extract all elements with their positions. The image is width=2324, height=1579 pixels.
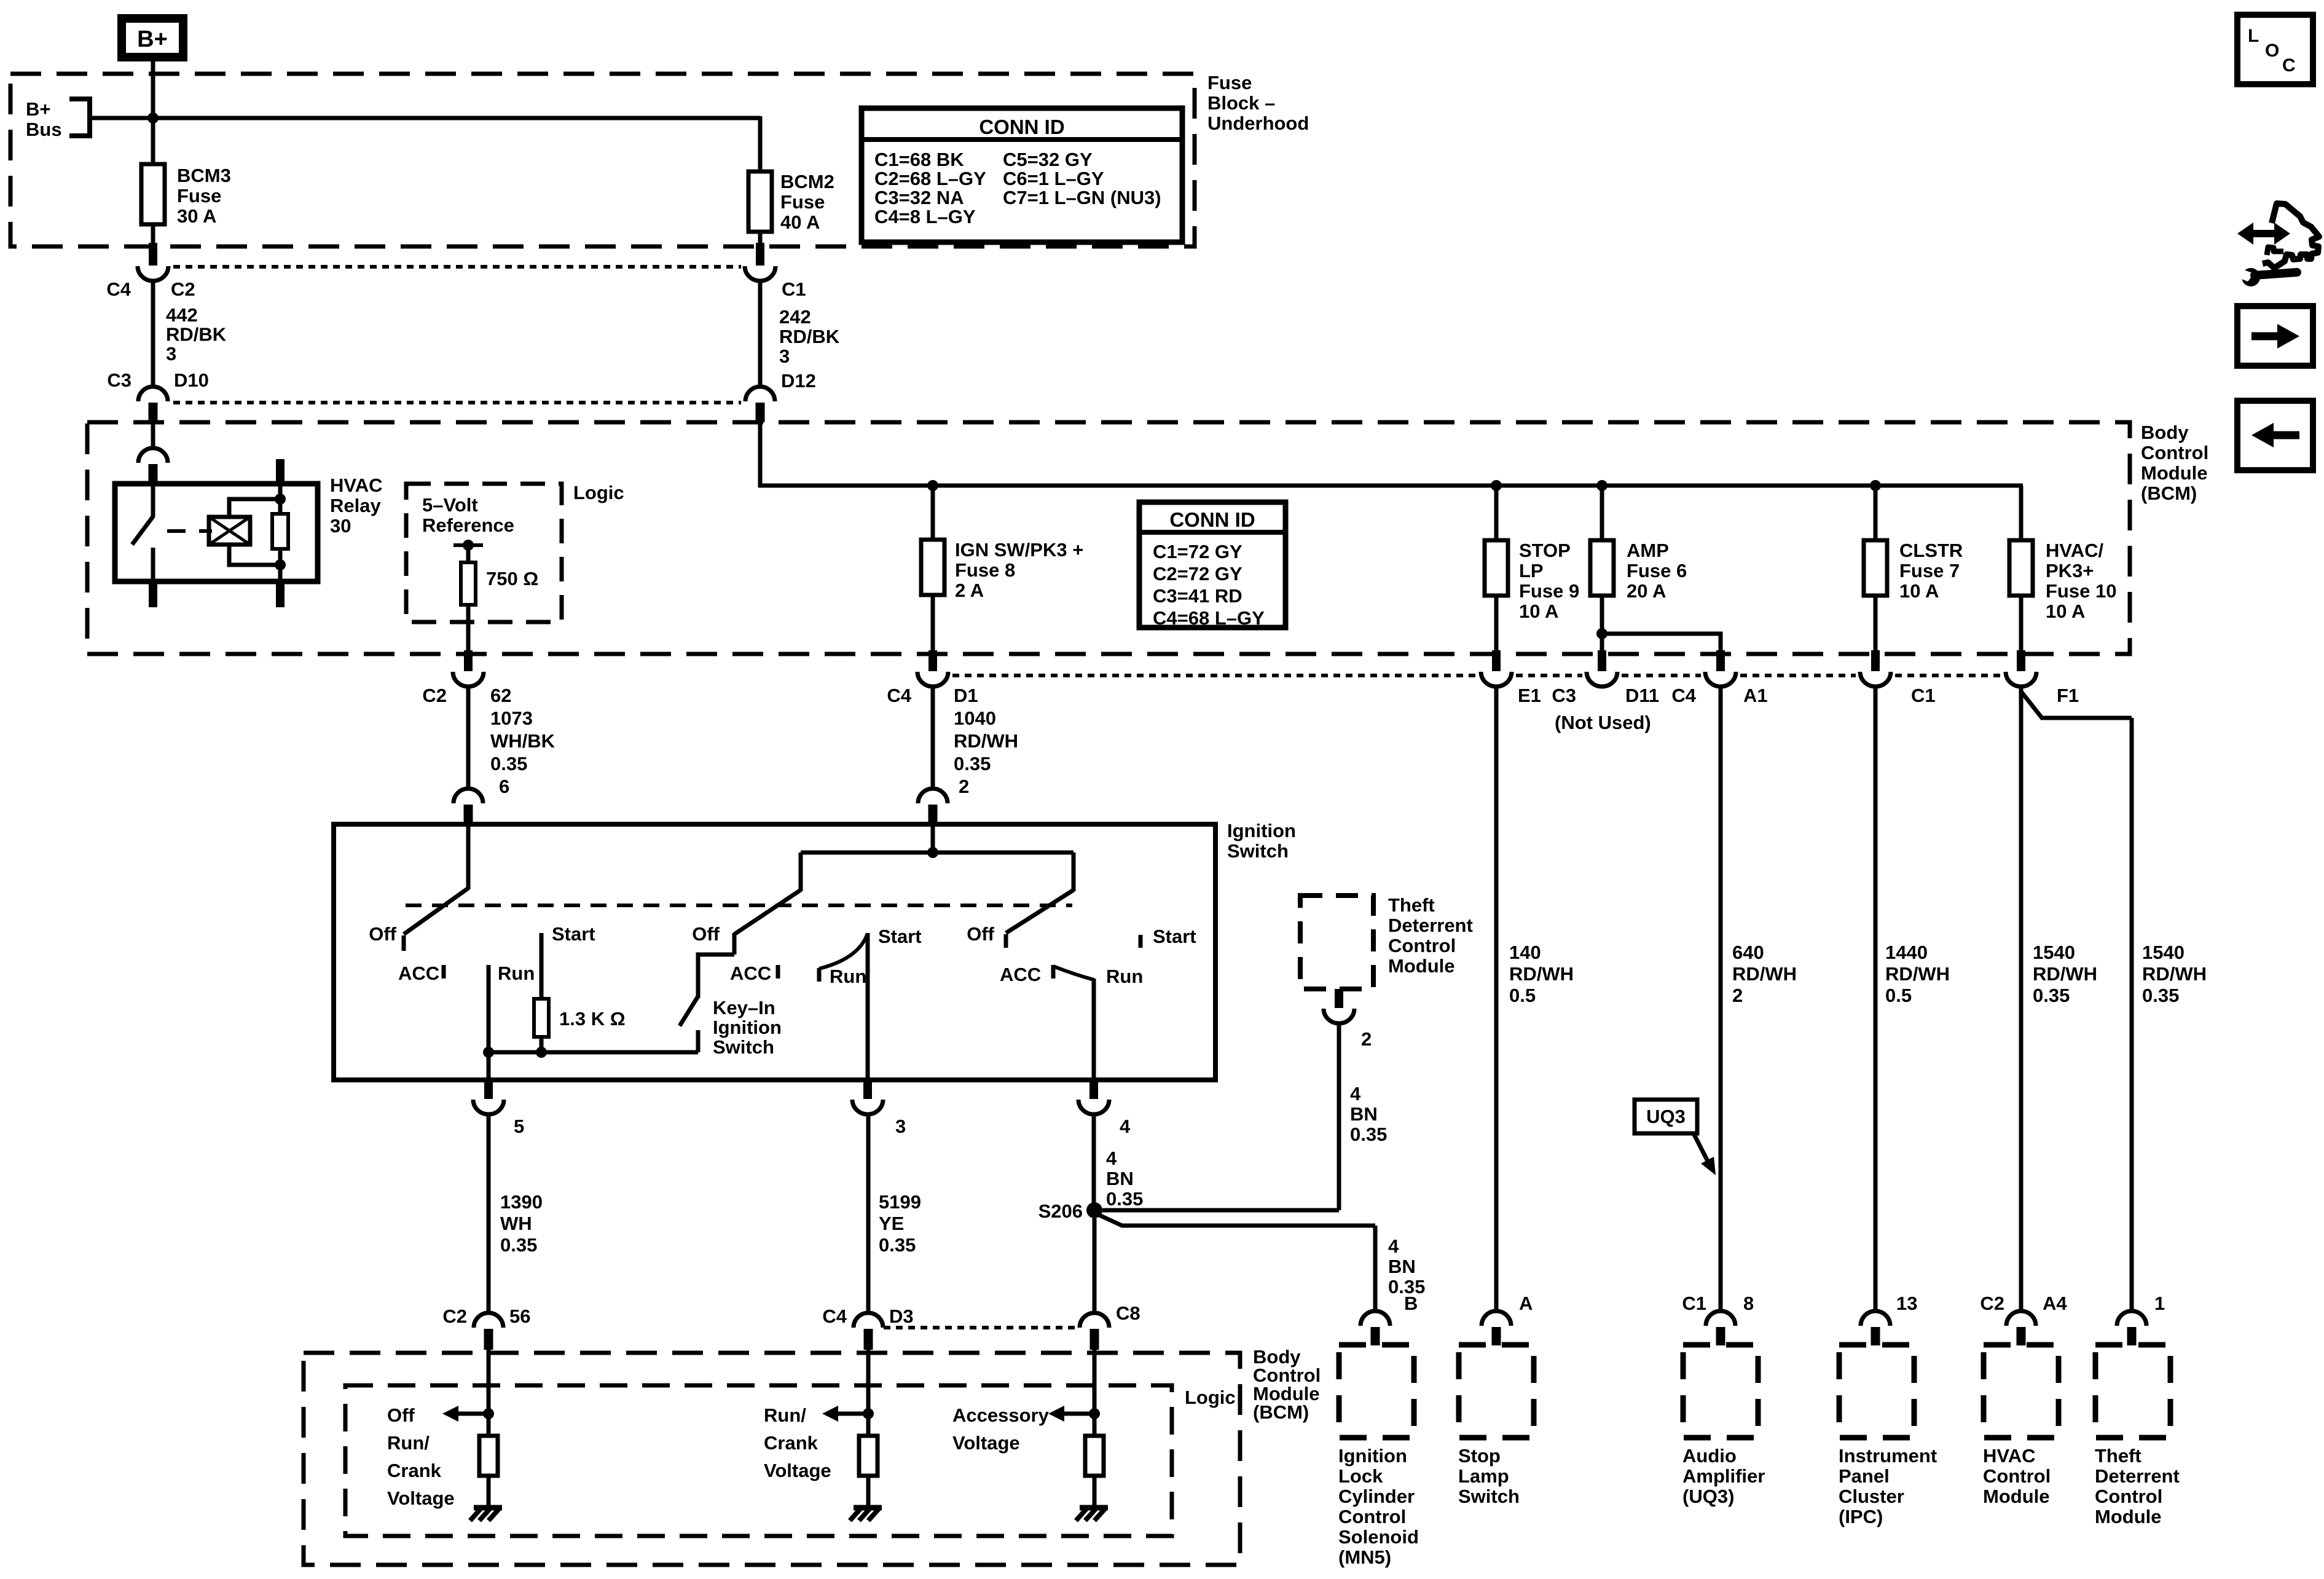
svg-text:Voltage: Voltage xyxy=(387,1487,455,1509)
svg-text:1390: 1390 xyxy=(500,1191,543,1213)
svg-text:Fuse 6: Fuse 6 xyxy=(1627,560,1687,581)
svg-text:5199: 5199 xyxy=(879,1191,921,1213)
svg-text:1.3 K Ω: 1.3 K Ω xyxy=(559,1008,626,1030)
svg-text:2: 2 xyxy=(1361,1028,1372,1050)
svg-text:Run: Run xyxy=(1106,966,1143,987)
svg-text:D10: D10 xyxy=(174,369,209,391)
svg-text:Underhood: Underhood xyxy=(1207,112,1309,134)
svg-text:Module: Module xyxy=(2141,462,2208,484)
svg-text:C: C xyxy=(2282,55,2296,76)
svg-text:Cluster: Cluster xyxy=(1839,1486,1904,1507)
svg-text:Control: Control xyxy=(2095,1486,2162,1507)
svg-text:Fuse 8: Fuse 8 xyxy=(955,559,1015,581)
svg-text:C6=1 L–GY: C6=1 L–GY xyxy=(1003,168,1104,189)
svg-text:3: 3 xyxy=(779,345,790,367)
svg-text:C3: C3 xyxy=(107,369,132,391)
svg-text:A: A xyxy=(1519,1293,1533,1314)
svg-text:Accessory: Accessory xyxy=(952,1404,1050,1426)
svg-text:Instrument: Instrument xyxy=(1839,1445,1937,1467)
svg-text:Run/: Run/ xyxy=(387,1432,430,1454)
svg-text:Voltage: Voltage xyxy=(764,1460,831,1481)
svg-text:O: O xyxy=(2265,41,2279,61)
svg-text:Off: Off xyxy=(967,923,994,945)
svg-text:RD/BK: RD/BK xyxy=(166,324,227,345)
svg-text:C1: C1 xyxy=(1682,1293,1706,1314)
svg-text:C8: C8 xyxy=(1116,1302,1140,1324)
svg-text:C4: C4 xyxy=(106,278,131,300)
svg-text:C3=41 RD: C3=41 RD xyxy=(1153,585,1242,607)
svg-text:S206: S206 xyxy=(1038,1200,1083,1222)
svg-text:Theft: Theft xyxy=(1388,894,1435,916)
svg-text:Lock: Lock xyxy=(1338,1465,1383,1487)
svg-text:0.35: 0.35 xyxy=(2142,985,2179,1006)
svg-text:Logic: Logic xyxy=(1185,1387,1236,1408)
svg-text:2: 2 xyxy=(1732,985,1743,1006)
svg-text:640: 640 xyxy=(1732,942,1764,963)
svg-text:Stop: Stop xyxy=(1458,1445,1501,1467)
svg-text:ACC: ACC xyxy=(398,963,439,984)
svg-text:Fuse: Fuse xyxy=(177,185,221,207)
svg-text:CLSTR: CLSTR xyxy=(1899,540,1963,561)
svg-text:D11: D11 xyxy=(1625,685,1659,706)
svg-text:Control: Control xyxy=(1338,1506,1406,1527)
svg-text:Off: Off xyxy=(369,923,396,945)
svg-text:RD/WH: RD/WH xyxy=(2142,963,2207,985)
svg-text:Run: Run xyxy=(830,966,866,987)
svg-text:1440: 1440 xyxy=(1885,942,1928,963)
svg-text:B: B xyxy=(1404,1293,1418,1314)
svg-text:8: 8 xyxy=(1743,1293,1754,1314)
svg-text:CONN ID: CONN ID xyxy=(979,116,1064,138)
svg-text:5: 5 xyxy=(514,1116,524,1137)
svg-text:Ignition: Ignition xyxy=(1338,1445,1407,1467)
svg-text:Ignition: Ignition xyxy=(713,1017,782,1038)
svg-text:140: 140 xyxy=(1509,942,1541,963)
svg-text:ACC: ACC xyxy=(730,963,771,984)
svg-text:C2: C2 xyxy=(1980,1293,2004,1314)
svg-text:Panel: Panel xyxy=(1839,1465,1890,1487)
svg-text:Module: Module xyxy=(2095,1506,2162,1527)
svg-text:HVAC/: HVAC/ xyxy=(2046,540,2104,561)
svg-text:Relay: Relay xyxy=(330,495,381,516)
svg-text:RD/WH: RD/WH xyxy=(1885,963,1950,985)
svg-text:0.35: 0.35 xyxy=(954,753,991,774)
svg-text:Logic: Logic xyxy=(573,482,624,503)
svg-text:Control: Control xyxy=(2141,442,2208,463)
svg-text:30: 30 xyxy=(330,515,351,537)
svg-text:Fuse 9: Fuse 9 xyxy=(1519,580,1579,602)
svg-text:Voltage: Voltage xyxy=(952,1432,1020,1454)
svg-text:Run/: Run/ xyxy=(764,1404,806,1426)
svg-text:1540: 1540 xyxy=(2142,942,2185,963)
svg-text:AMP: AMP xyxy=(1627,540,1669,561)
svg-text:C2: C2 xyxy=(171,278,195,300)
svg-text:CONN ID: CONN ID xyxy=(1169,508,1255,531)
svg-text:1: 1 xyxy=(2154,1293,2165,1314)
svg-text:Module: Module xyxy=(1983,1486,2050,1507)
svg-text:BCM2: BCM2 xyxy=(780,171,834,192)
svg-text:Switch: Switch xyxy=(1458,1486,1520,1507)
svg-text:C1=68 BK: C1=68 BK xyxy=(874,149,964,170)
svg-text:0.35: 0.35 xyxy=(500,1234,537,1256)
svg-text:0.35: 0.35 xyxy=(879,1234,916,1256)
svg-text:3: 3 xyxy=(895,1116,906,1137)
svg-text:4: 4 xyxy=(1388,1235,1399,1257)
svg-text:1540: 1540 xyxy=(2033,942,2075,963)
svg-text:1073: 1073 xyxy=(490,707,533,729)
svg-text:ACC: ACC xyxy=(1000,964,1041,985)
svg-text:C3: C3 xyxy=(1552,685,1576,706)
svg-text:Fuse: Fuse xyxy=(780,191,825,213)
svg-text:4: 4 xyxy=(1120,1116,1131,1137)
svg-text:2: 2 xyxy=(959,776,969,797)
svg-text:RD/WH: RD/WH xyxy=(1509,963,1574,985)
svg-text:Amplifier: Amplifier xyxy=(1682,1465,1765,1487)
svg-text:Cylinder: Cylinder xyxy=(1338,1486,1415,1507)
svg-text:(BCM): (BCM) xyxy=(2141,482,2197,504)
svg-text:Control: Control xyxy=(1388,935,1456,956)
svg-text:A1: A1 xyxy=(1743,685,1768,706)
svg-text:6: 6 xyxy=(499,776,509,797)
svg-text:D12: D12 xyxy=(781,370,816,392)
svg-text:Reference: Reference xyxy=(422,514,514,536)
svg-text:0.35: 0.35 xyxy=(1350,1124,1387,1145)
svg-text:10 A: 10 A xyxy=(2046,600,2085,622)
svg-text:D3: D3 xyxy=(889,1305,914,1327)
svg-text:4: 4 xyxy=(1106,1148,1117,1169)
svg-text:Crank: Crank xyxy=(764,1432,819,1454)
svg-text:HVAC: HVAC xyxy=(330,474,383,496)
svg-text:PK3+: PK3+ xyxy=(2046,560,2094,581)
svg-text:(IPC): (IPC) xyxy=(1839,1506,1883,1527)
svg-text:(BCM): (BCM) xyxy=(1253,1401,1309,1423)
svg-text:10 A: 10 A xyxy=(1899,580,1939,602)
svg-text:Start: Start xyxy=(1153,926,1196,947)
svg-text:10 A: 10 A xyxy=(1519,600,1558,622)
svg-text:0.5: 0.5 xyxy=(1509,985,1536,1006)
svg-text:Lamp: Lamp xyxy=(1458,1465,1509,1487)
svg-text:C4: C4 xyxy=(887,685,911,706)
svg-text:BN: BN xyxy=(1350,1103,1378,1125)
svg-text:C4: C4 xyxy=(822,1305,847,1327)
svg-text:L: L xyxy=(2248,26,2259,46)
svg-text:Solenoid: Solenoid xyxy=(1338,1526,1419,1548)
svg-text:C4=8 L–GY: C4=8 L–GY xyxy=(874,206,976,227)
svg-text:750 Ω: 750 Ω xyxy=(486,568,538,589)
svg-text:2 A: 2 A xyxy=(955,580,984,601)
svg-text:E1: E1 xyxy=(1518,685,1541,706)
svg-text:WH: WH xyxy=(500,1213,532,1234)
svg-text:Off: Off xyxy=(387,1404,415,1426)
svg-text:Start: Start xyxy=(552,923,595,945)
svg-text:RD/WH: RD/WH xyxy=(1732,963,1797,985)
svg-text:0.35: 0.35 xyxy=(2033,985,2070,1006)
svg-text:D1: D1 xyxy=(954,685,978,706)
svg-text:0.35: 0.35 xyxy=(1106,1188,1143,1210)
svg-text:Start: Start xyxy=(878,926,922,947)
svg-text:C7=1 L–GN (NU3): C7=1 L–GN (NU3) xyxy=(1003,187,1161,208)
svg-text:A4: A4 xyxy=(2043,1293,2067,1314)
svg-text:Theft: Theft xyxy=(2095,1445,2141,1467)
svg-text:WH/BK: WH/BK xyxy=(490,730,555,752)
svg-text:STOP: STOP xyxy=(1519,540,1571,561)
svg-text:HVAC: HVAC xyxy=(1983,1445,2036,1467)
svg-text:RD/BK: RD/BK xyxy=(779,326,840,347)
svg-text:Audio: Audio xyxy=(1682,1445,1737,1467)
svg-text:Crank: Crank xyxy=(387,1460,442,1481)
svg-text:BCM3: BCM3 xyxy=(177,165,231,186)
svg-text:B+: B+ xyxy=(26,98,51,120)
svg-text:13: 13 xyxy=(1896,1293,1917,1314)
svg-text:3: 3 xyxy=(166,343,176,364)
svg-text:4: 4 xyxy=(1350,1083,1361,1105)
svg-text:62: 62 xyxy=(490,685,511,706)
svg-text:Key–In: Key–In xyxy=(713,997,775,1018)
svg-text:Module: Module xyxy=(1388,955,1455,977)
svg-text:40 A: 40 A xyxy=(780,211,820,233)
svg-text:Deterrent: Deterrent xyxy=(1388,915,1473,936)
svg-text:C3=32 NA: C3=32 NA xyxy=(874,187,964,208)
svg-text:(UQ3): (UQ3) xyxy=(1682,1486,1734,1507)
svg-text:Bus: Bus xyxy=(26,119,62,140)
svg-text:RD/WH: RD/WH xyxy=(2033,963,2097,985)
svg-text:C2: C2 xyxy=(442,1305,467,1327)
svg-text:0.5: 0.5 xyxy=(1885,985,1912,1006)
svg-text:Run: Run xyxy=(498,963,535,984)
svg-text:Body: Body xyxy=(2141,422,2189,443)
svg-text:Deterrent: Deterrent xyxy=(2095,1465,2180,1487)
svg-text:20 A: 20 A xyxy=(1627,580,1666,602)
svg-text:56: 56 xyxy=(509,1305,530,1327)
svg-text:C4=68 L–GY: C4=68 L–GY xyxy=(1153,607,1265,629)
svg-text:UQ3: UQ3 xyxy=(1646,1106,1686,1127)
svg-text:Fuse 7: Fuse 7 xyxy=(1899,560,1960,581)
svg-text:C4: C4 xyxy=(1671,685,1696,706)
svg-text:Off: Off xyxy=(692,923,720,945)
svg-text:Switch: Switch xyxy=(713,1036,774,1058)
svg-text:C2=72 GY: C2=72 GY xyxy=(1153,563,1242,585)
svg-text:Block –: Block – xyxy=(1207,92,1275,114)
svg-text:LP: LP xyxy=(1519,560,1544,581)
svg-text:Ignition: Ignition xyxy=(1227,820,1296,841)
svg-text:Switch: Switch xyxy=(1227,840,1289,862)
svg-text:BN: BN xyxy=(1106,1168,1134,1189)
svg-text:BN: BN xyxy=(1388,1256,1416,1277)
svg-text:(Not Used): (Not Used) xyxy=(1555,712,1651,733)
svg-text:C1=72 GY: C1=72 GY xyxy=(1153,541,1242,562)
svg-text:B+: B+ xyxy=(137,26,168,52)
svg-text:Fuse 10: Fuse 10 xyxy=(2046,580,2116,602)
svg-text:C1: C1 xyxy=(1911,685,1936,706)
svg-text:242: 242 xyxy=(779,306,811,328)
svg-text:1040: 1040 xyxy=(954,707,996,729)
svg-text:C2=68 L–GY: C2=68 L–GY xyxy=(874,168,986,189)
svg-text:442: 442 xyxy=(166,304,198,326)
svg-text:F1: F1 xyxy=(2057,685,2079,706)
svg-text:YE: YE xyxy=(879,1213,904,1234)
svg-text:C5=32 GY: C5=32 GY xyxy=(1003,149,1093,170)
svg-text:RD/WH: RD/WH xyxy=(954,730,1018,752)
svg-text:IGN SW/PK3 +: IGN SW/PK3 + xyxy=(955,539,1083,561)
svg-text:30 A: 30 A xyxy=(177,205,216,227)
svg-text:0.35: 0.35 xyxy=(490,753,527,774)
svg-text:5–Volt: 5–Volt xyxy=(422,494,478,516)
svg-text:C2: C2 xyxy=(422,685,447,706)
svg-text:Fuse: Fuse xyxy=(1207,72,1252,93)
svg-text:Control: Control xyxy=(1983,1465,2051,1487)
svg-text:(MN5): (MN5) xyxy=(1338,1546,1391,1568)
svg-text:C1: C1 xyxy=(782,278,806,300)
